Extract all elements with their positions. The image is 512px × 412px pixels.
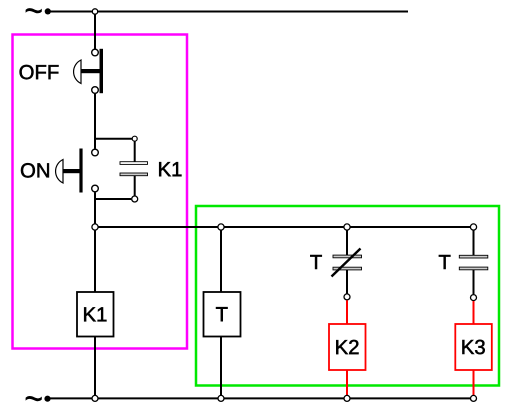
relay coil T [204, 292, 241, 337]
timed contact T (normally closed, slashed) [333, 255, 362, 258]
relay coil K2 (energized, red) [329, 324, 366, 370]
wire: contact to node above K3 [473, 270, 475, 294]
node: bottom rail K2 junction [344, 395, 350, 401]
wire: bottom supply rail [48, 397, 470, 399]
wire: branch to K1 contact (top) [95, 138, 135, 140]
wire: contact to node above K2 [346, 270, 348, 294]
wire: K1 contact top lead [134, 142, 136, 162]
node: mid-rail junction K2 branch [344, 224, 350, 230]
relay coil K1 [77, 292, 114, 337]
wire: K3 branch to timed contact [473, 231, 475, 256]
node: bottom rail T junction [218, 395, 224, 401]
wire: top supply rail [48, 11, 408, 13]
node: K1 contact bottom terminal [132, 196, 138, 202]
node: bottom rail K1 junction [92, 395, 98, 401]
frame: green group box [196, 206, 499, 386]
label K1 (contact) [159, 162, 181, 176]
wire: branch from K1 contact (bottom) [95, 198, 131, 200]
wire: K1 contact bottom lead [134, 176, 136, 196]
wire (red): node to K3 coil [473, 301, 475, 324]
frame: magenta group box [13, 35, 188, 349]
wire: top rail down to OFF button [94, 15, 96, 50]
label T (timed contact K2) [310, 255, 322, 269]
label OFF [20, 65, 59, 79]
node: bottom rail K3 end junction [471, 395, 477, 401]
relay coil K3 (energized, red) [455, 324, 492, 370]
wire (red): node to K2 coil [346, 300, 348, 324]
wire: K2 branch to timed contact [346, 231, 348, 256]
wire: mid rail horizontal [98, 226, 471, 228]
node: K1 contact top terminal [132, 136, 137, 141]
node: K2 branch terminal [344, 294, 350, 300]
pushbutton OFF (normally closed) [92, 49, 99, 56]
label ON [21, 163, 49, 177]
node: mid-rail junction left [92, 224, 98, 230]
node: K3 branch terminal [471, 295, 477, 301]
wire: OFF to ON vertical [94, 94, 96, 149]
node: mid-rail junction T branch [218, 224, 224, 230]
wire (red): K2 coil to bottom rail [346, 370, 348, 395]
wire: T coil to bottom rail [220, 336, 222, 395]
pushbutton ON (normally open) [92, 149, 99, 156]
wire: ON bottom to mid-rail junction [94, 192, 96, 224]
wire: T branch down to coil [220, 231, 222, 293]
node: junction on top rail [92, 9, 97, 14]
AC source symbol bottom (~ and dot) [26, 396, 42, 401]
timed contact T (normally open) [459, 255, 488, 258]
AC source symbol top (~ and dot) [26, 8, 42, 13]
label T (timed contact K3) [439, 255, 451, 269]
node: mid-rail junction K3 branch [470, 224, 476, 230]
wire: junction down to K1 coil [94, 231, 96, 293]
relay contact K1 (normally open) [120, 162, 148, 165]
wire: K1 coil to bottom rail [94, 337, 96, 396]
wire (red): K3 coil to bottom rail [473, 370, 475, 395]
